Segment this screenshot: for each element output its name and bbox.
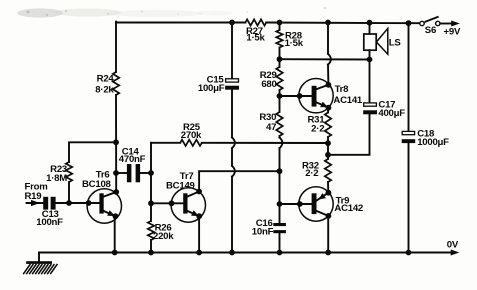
wire: Tr7 collector to driver node	[199, 171, 279, 191]
resistor R23 1.8M	[46, 162, 72, 184]
input arrow From R19	[25, 181, 48, 206]
svg-text:LS: LS	[389, 37, 402, 48]
ground symbol	[23, 253, 57, 275]
svg-text:BC149: BC149	[166, 180, 195, 191]
node: R24/feedback junction	[113, 139, 119, 145]
wire: output to C17 bottom	[328, 114, 370, 154]
wire: 0V bottom rail	[39, 252, 452, 254]
node: rail/C15 junction	[229, 20, 235, 26]
node: Tr8 base dot	[297, 93, 303, 99]
wire: R32 to Tr9 emitter	[327, 182, 329, 193]
svg-text:680: 680	[261, 79, 276, 90]
transistor Tr7 BC149	[166, 171, 206, 222]
svg-text:BC108: BC108	[82, 179, 112, 190]
wire: LS to C17	[369, 60, 371, 103]
svg-text:AC142: AC142	[334, 203, 363, 214]
node: 0V/R26	[148, 250, 154, 256]
transistor Tr6 BC108	[82, 169, 122, 223]
wire: C15 decoupling line to 0V	[232, 23, 235, 253]
svg-text:270k: 270k	[181, 130, 202, 141]
wire: C18 branch	[408, 23, 410, 252]
svg-text:0V: 0V	[447, 240, 459, 251]
paper smudge (scan artifact)	[17, 7, 326, 18]
wire: R26 bottom lead	[150, 240, 152, 253]
node: driver/Tr9 base junction	[277, 168, 283, 174]
node: LS/C17 junction	[367, 57, 373, 63]
node: Tr8 base junction	[277, 93, 283, 99]
resistor R26 220k	[148, 221, 174, 242]
svg-text:Tr8: Tr8	[335, 84, 350, 95]
node: Tr9 base dot	[297, 201, 303, 207]
svg-text:R19: R19	[25, 191, 42, 202]
wire: +9V top rail	[116, 22, 420, 25]
svg-text:2·2: 2·2	[305, 168, 318, 179]
wire: bootstrap line to LS	[280, 58, 370, 60]
wire: Tr9 base lead	[280, 203, 313, 205]
wire: R28 chain vertical	[280, 23, 283, 253]
wire: Tr9 collector to 0V	[327, 216, 329, 253]
wire: rail to Tr8 collector	[328, 23, 331, 85]
svg-text:+9V: +9V	[444, 27, 461, 38]
node: 0V/C16	[277, 250, 283, 256]
speaker LS	[364, 23, 402, 60]
transistor Tr9 AC142	[299, 187, 363, 221]
node: rail/R28 junction	[277, 20, 283, 26]
node: R25/output junction	[325, 140, 331, 146]
resistor R25 270k	[151, 122, 202, 146]
svg-text:47: 47	[266, 122, 276, 133]
wire: C14/Tr7 base/R26 vertical	[150, 143, 152, 221]
node: rail/Tr8 collector junction	[325, 20, 331, 26]
node: 0V/Tr7 emitter	[196, 250, 202, 256]
svg-text:100μF: 100μF	[198, 83, 225, 94]
svg-text:220k: 220k	[153, 231, 174, 242]
capacitor C18 1000uF	[402, 128, 449, 148]
svg-text:1000μF: 1000μF	[417, 137, 449, 148]
0V arrow	[447, 240, 460, 256]
node: Tr6 base dot	[86, 200, 92, 206]
switch S6	[420, 17, 440, 36]
svg-text:AC141: AC141	[333, 95, 363, 106]
resistor R30 47	[259, 112, 282, 136]
wire: feedback line to R23	[69, 142, 116, 162]
svg-text:470nF: 470nF	[119, 154, 146, 165]
resistor R24 8.2k	[95, 72, 119, 96]
wire: R23 bottom lead	[68, 182, 70, 203]
svg-text:1·5k: 1·5k	[285, 38, 304, 49]
wire: Tr7 base lead	[151, 202, 183, 204]
capacitor C16 10nF	[252, 218, 286, 237]
+9V supply arrow	[440, 21, 461, 38]
capacitor C14 470nF	[116, 146, 151, 182]
capacitor C13 100nF	[36, 197, 63, 228]
svg-text:10nF: 10nF	[252, 227, 274, 238]
resistor R29 680	[260, 67, 283, 90]
resistor R28 1.5k	[276, 30, 303, 49]
node: R28/bootstrap junction	[277, 56, 283, 62]
node: 0V/C18	[406, 250, 412, 256]
node: 0V/Tr9 collector	[325, 250, 331, 256]
wire: output node vertical	[327, 137, 329, 159]
svg-text:1·8M: 1·8M	[46, 173, 67, 184]
wire: R24 branch from rail	[115, 22, 117, 72]
resistor R32 2.2	[302, 159, 331, 182]
transistor Tr8 AC141	[299, 79, 363, 113]
node: 0V/Tr6 emitter	[112, 250, 118, 256]
wire: R25 to output node	[202, 142, 328, 144]
node: 0V/C15 line	[229, 250, 235, 256]
wire: Tr8 base lead	[280, 95, 313, 97]
node: collector/C14 junction	[113, 170, 119, 176]
node: rail/LS junction	[367, 20, 373, 26]
svg-text:S6: S6	[425, 25, 436, 36]
resistor R31 2.2	[307, 108, 331, 137]
node: Tr7 base junction	[148, 200, 154, 206]
resistor R27 1.5k	[245, 19, 266, 43]
wire: R24 bottom to Tr6 collector	[115, 95, 117, 192]
wire: Tr6 emitter to 0V	[114, 216, 116, 252]
svg-text:100nF: 100nF	[36, 217, 63, 228]
node: R23/base junction	[66, 200, 72, 206]
capacitor C15 100uF	[198, 74, 239, 94]
svg-text:400μF: 400μF	[378, 108, 405, 119]
node: rail/C18 junction	[406, 20, 412, 26]
capacitor C17 400uF	[363, 99, 405, 119]
node: C14 junction	[148, 170, 154, 176]
wire: Tr7 emitter to 0V	[198, 216, 200, 252]
svg-text:1·5k: 1·5k	[246, 33, 265, 44]
node: Tr7 base dot	[169, 200, 175, 206]
svg-text:8·2k: 8·2k	[95, 85, 114, 96]
svg-text:R24: R24	[97, 74, 115, 85]
node: C17/output junction	[325, 152, 331, 158]
wire: C13 to Tr6 base	[56, 202, 100, 204]
svg-text:2·2: 2·2	[311, 124, 324, 135]
node: Tr9 base tap	[277, 201, 283, 207]
